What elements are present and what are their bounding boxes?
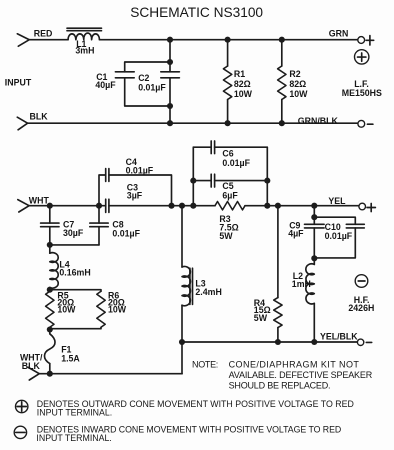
svg-text:30µF: 30µF [63, 228, 84, 238]
svg-text:0.01µF: 0.01µF [222, 158, 250, 168]
svg-text:GRN: GRN [329, 29, 349, 39]
svg-text:0.01µF: 0.01µF [138, 82, 166, 92]
svg-text:BLK: BLK [30, 111, 49, 121]
svg-text:R2: R2 [289, 69, 300, 79]
svg-text:YEL: YEL [328, 196, 346, 206]
svg-text:5W: 5W [254, 313, 268, 323]
svg-text:10W: 10W [289, 89, 308, 99]
svg-text:C6: C6 [222, 148, 233, 158]
svg-text:1mH: 1mH [292, 279, 311, 289]
svg-text:ME150HS: ME150HS [342, 88, 382, 98]
svg-text:3mH: 3mH [75, 46, 94, 56]
svg-text:YEL/BLK: YEL/BLK [320, 332, 358, 342]
svg-text:0.01µF: 0.01µF [325, 231, 353, 241]
svg-text:INPUT TERMINAL.: INPUT TERMINAL. [36, 433, 111, 443]
svg-text:82Ω: 82Ω [234, 79, 251, 89]
svg-text:0.16mH: 0.16mH [59, 268, 90, 278]
svg-text:4µF: 4µF [288, 228, 304, 238]
svg-text:CONE/DIAPHRAGM KIT NOT: CONE/DIAPHRAGM KIT NOT [229, 359, 360, 369]
svg-text:10W: 10W [57, 305, 76, 315]
svg-text:0.01µF: 0.01µF [112, 229, 140, 239]
svg-text:INPUT TERMINAL.: INPUT TERMINAL. [37, 408, 112, 418]
svg-text:10W: 10W [108, 305, 127, 315]
svg-text:INPUT: INPUT [5, 78, 32, 88]
svg-text:2.4mH: 2.4mH [195, 287, 221, 297]
svg-text:BLK: BLK [22, 361, 41, 371]
svg-text:SHOULD BE REPLACED.: SHOULD BE REPLACED. [229, 381, 331, 391]
svg-text:0.01µF: 0.01µF [126, 166, 154, 176]
svg-text:10W: 10W [234, 89, 253, 99]
svg-text:SCHEMATIC NS3100: SCHEMATIC NS3100 [130, 5, 263, 20]
svg-text:40µF: 40µF [95, 80, 116, 90]
svg-text:82Ω: 82Ω [289, 79, 306, 89]
svg-text:R1: R1 [234, 69, 245, 79]
svg-text:3µF: 3µF [127, 191, 143, 201]
svg-text:2426H: 2426H [348, 303, 374, 313]
svg-text:AVAILABLE. DEFECTIVE SPEAKER: AVAILABLE. DEFECTIVE SPEAKER [229, 370, 373, 380]
svg-text:6µF: 6µF [222, 190, 238, 200]
svg-text:5W: 5W [219, 231, 233, 241]
svg-text:GRN/BLK: GRN/BLK [298, 116, 339, 126]
svg-text:WHT: WHT [29, 196, 50, 206]
svg-text:RED: RED [34, 28, 53, 38]
svg-text:1.5A: 1.5A [61, 353, 80, 363]
svg-text:NOTE:: NOTE: [192, 359, 218, 369]
